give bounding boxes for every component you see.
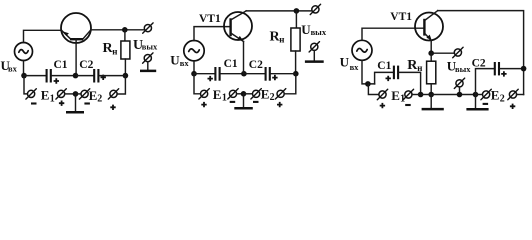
wire E1 to base column [65, 93, 75, 95]
output terminal upper 2 [312, 6, 319, 13]
terminal E2 left (circuit 3) [483, 91, 490, 98]
ground emitter column 2 [243, 94, 245, 107]
minus of E2 left 3 [483, 103, 489, 105]
output terminal lower 3 [456, 80, 463, 87]
plus of C2 [101, 75, 106, 80]
wire AC bottom to row B [23, 61, 25, 76]
capacitor C1 (circuit 1) [46, 69, 48, 83]
junction base row B 1 [73, 73, 79, 79]
junction base row C 1 [73, 91, 79, 97]
svg-text:C2: C2 [249, 59, 263, 71]
capacitor C2 (circuit 2) [265, 67, 267, 81]
terminal E1 left (circuit 3) [379, 91, 386, 98]
svg-text:U: U [340, 55, 350, 70]
wire AC3 junction down to E1-3 [368, 84, 379, 95]
wire node to output terminal 3 [431, 52, 454, 54]
terminal E2 right (circuit 2) [277, 90, 284, 97]
wire to C2-2 [245, 73, 264, 75]
base bar VT1-2 [229, 18, 231, 36]
svg-text:вх: вх [350, 62, 360, 72]
plus of C1-2 [208, 76, 213, 81]
wire C1 to base junction [52, 75, 74, 77]
svg-text:н: н [417, 63, 422, 73]
junction lower terminal row C 3 [457, 92, 463, 98]
collector VT1-3 [425, 11, 437, 20]
minus of E1 left [31, 102, 37, 104]
plus of C2-2 [272, 75, 277, 80]
junction AC3 column [365, 81, 371, 87]
wire R column to E2 right 2 [284, 74, 296, 94]
junction top rail C1 [122, 27, 128, 33]
svg-text:U: U [170, 53, 180, 68]
wire E1-2 to emitter column [237, 93, 243, 95]
wire G1 top to emitter [24, 30, 62, 42]
collector VT1-2 [232, 11, 247, 20]
svg-text:VT1: VT1 [199, 13, 221, 25]
output terminal lower 2 [311, 43, 318, 50]
wire R column down to E2 right [117, 76, 125, 94]
output terminal upper 3 [454, 49, 461, 56]
wire G3 top to base [362, 28, 424, 40]
emitter arrow VT1-2 [237, 36, 243, 41]
wire collector to output [91, 29, 144, 31]
terminal E1 left (circuit 2) [201, 90, 208, 97]
svg-text:C2: C2 [472, 58, 486, 70]
resistor RH 2 [291, 28, 300, 51]
junction top rail 2 [294, 8, 300, 14]
wire junction to E2 left 2 [245, 93, 253, 95]
wire resistor 3 down [430, 84, 432, 95]
junction rail C2 3 [521, 66, 527, 72]
terminal E1 right (circuit 2) [229, 90, 236, 97]
svg-text:C1: C1 [377, 60, 391, 72]
output terminal upper 1 [144, 25, 151, 32]
junction row B right 1 [123, 73, 129, 79]
wire up to C1-3 [375, 72, 393, 84]
AC source G2 [184, 41, 204, 61]
wire C1-2 to emitter column [221, 73, 243, 75]
capacitor C2 (circuit 3) [494, 62, 496, 75]
minus of E1 right 2 [230, 101, 236, 103]
svg-text:C1: C1 [54, 59, 68, 71]
svg-text:2: 2 [97, 94, 102, 105]
wire E2-3 right to rail corner [517, 94, 524, 96]
junction R column row C 3 [428, 92, 434, 98]
emitter VT1-3 [425, 34, 431, 41]
svg-text:1: 1 [50, 93, 55, 104]
svg-text:н: н [112, 46, 117, 56]
wire C2 to R column [100, 75, 125, 77]
svg-text:вых: вых [142, 42, 158, 52]
top rail 3 and right edge down [438, 11, 524, 95]
wire C2-2 to R column [271, 73, 295, 75]
capacitor C2 (circuit 1) [93, 69, 95, 83]
junction C1 column row C 3 [418, 92, 424, 98]
capacitor C1 (circuit 3) [393, 66, 395, 80]
junction emitter node 3 [428, 50, 434, 56]
emitter VT1-2 [232, 34, 244, 42]
plus of E1 right [59, 101, 64, 106]
wire C1 column to R column [422, 94, 430, 96]
svg-text:C1: C1 [224, 58, 238, 70]
emitter arrow VT1-3 [426, 35, 431, 40]
svg-text:C2: C2 [79, 59, 93, 71]
svg-text:E: E [89, 88, 98, 103]
terminal E1 right (circuit 1) [58, 90, 65, 97]
junction row B left 1 [21, 73, 27, 79]
transistor internals: emitter slant, collector slant, base bar, base stem [62, 30, 71, 39]
wire AC3 bottom down [362, 60, 375, 84]
wire R column to lower terminal column [432, 94, 474, 96]
stub lower terminal 3 to row C [459, 87, 461, 94]
terminal E2 right (circuit 3) [509, 91, 516, 98]
wire base junction to C2 [77, 75, 93, 77]
plus of E2 right 2 [277, 102, 282, 107]
junction row B left 2 [191, 71, 197, 77]
plus of C2-3 [501, 71, 506, 76]
svg-text:E: E [213, 87, 222, 102]
wire resistor 2 down [295, 51, 297, 74]
wire junction to resistor [124, 30, 126, 41]
plus of E2 right [110, 105, 115, 110]
plus of E1 left 3 [380, 103, 385, 108]
resistor RH 3 [427, 61, 436, 84]
svg-text:E: E [261, 86, 270, 101]
terminal E1 left (circuit 1) [28, 90, 35, 97]
plus of E1 left 2 [201, 102, 206, 107]
wire C1-3 right down to row C [399, 72, 420, 94]
svg-text:вх: вх [8, 64, 18, 74]
plus of C1 [54, 78, 59, 83]
transistor T (circle, common base) [61, 13, 91, 43]
terminal E1 right (circuit 3) [405, 91, 412, 98]
wire AC column down to E1 [24, 76, 27, 94]
wire row B to C1-2 [194, 73, 214, 75]
wire node to resistor 3 [430, 53, 432, 61]
emitter column to node [430, 41, 432, 54]
wire junction to E2 left [77, 93, 81, 95]
junction emitter row B 2 [241, 71, 247, 77]
wire rail to resistor 2 [295, 11, 297, 28]
ground base column 1 [75, 94, 77, 111]
svg-text:вых: вых [455, 64, 471, 74]
terminal E2 right (circuit 1) [110, 90, 117, 97]
emitter arrow (pointing out, up-left) [64, 32, 69, 36]
emitter column down [243, 42, 245, 74]
plus of E2 right 3 [510, 104, 515, 109]
junction emitter row C 2 [241, 91, 247, 97]
svg-text:вых: вых [311, 27, 327, 37]
svg-text:E: E [41, 87, 50, 102]
transistor VT1 (circuit 3) [415, 13, 443, 41]
plus of C1-3 [386, 76, 391, 81]
wire AC2 bottom to row B [193, 61, 195, 74]
wire G2 top to base [194, 27, 230, 41]
transistor VT1 (circuit 2) [224, 12, 252, 40]
svg-text:1: 1 [222, 93, 227, 104]
svg-text:2: 2 [500, 93, 505, 104]
top rail 2 [246, 10, 311, 12]
wire junction to E2 left 3 [477, 94, 483, 96]
resistor RH 1 [121, 41, 130, 59]
svg-text:E: E [491, 88, 500, 103]
wire C2-3 to rail [500, 68, 523, 70]
ground under resistor 3 [430, 95, 432, 108]
svg-text:н: н [279, 35, 284, 45]
C2 column up from junction [476, 69, 494, 95]
minus of E2 left [84, 102, 90, 104]
svg-text:VT1: VT1 [390, 11, 412, 23]
AC source G3 [352, 40, 372, 60]
wire row B to C1 [24, 75, 45, 77]
junction row B right 2 [293, 71, 299, 77]
junction C2 column row C 3 [473, 92, 479, 98]
ground mid column 3 [475, 95, 477, 108]
terminal E2 left (circuit 2) [253, 90, 260, 97]
ground under lower terminal 2 [313, 51, 315, 61]
minus of E1 right 3 [405, 104, 411, 106]
wire resistor down [124, 59, 126, 76]
svg-text:2: 2 [270, 92, 275, 103]
output terminal lower 1 [144, 55, 151, 62]
base bar VT1-3 [423, 19, 425, 36]
wire E1-3 to C1 column [412, 94, 419, 96]
terminal E2 left (circuit 1) [81, 90, 88, 97]
minus of E2 left 2 [253, 101, 259, 103]
ground under lower terminal 1 [147, 62, 149, 70]
AC source G1 [15, 43, 33, 61]
capacitor C1 (circuit 2) [214, 67, 216, 81]
wire AC2 column down to E1-2 [194, 74, 201, 94]
svg-text:E: E [391, 88, 400, 103]
